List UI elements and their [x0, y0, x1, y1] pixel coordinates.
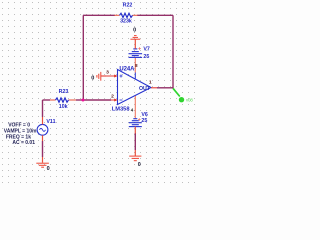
svg-text:0: 0: [47, 166, 50, 172]
svg-text:1: 1: [149, 80, 152, 86]
svg-text:R22: R22: [123, 3, 133, 9]
svg-text:0: 0: [91, 75, 94, 81]
svg-text:LM358: LM358: [112, 107, 130, 113]
svg-text:v08: v08: [186, 97, 193, 102]
svg-text:VAMPL = 10m: VAMPL = 10m: [4, 129, 37, 135]
svg-text:0: 0: [138, 162, 141, 168]
svg-text:V11: V11: [46, 119, 55, 125]
svg-text:3: 3: [106, 69, 109, 75]
svg-text:25: 25: [143, 54, 149, 60]
svg-text:0: 0: [133, 27, 136, 33]
svg-text:25: 25: [141, 118, 147, 124]
svg-text:323k: 323k: [120, 19, 132, 25]
svg-text:OUT: OUT: [139, 86, 151, 92]
svg-text:R23: R23: [59, 89, 69, 95]
svg-text:VOFF = 0: VOFF = 0: [8, 123, 30, 129]
svg-text:U24A: U24A: [119, 66, 135, 72]
svg-text:AC = 0.01: AC = 0.01: [12, 140, 35, 146]
svg-text:2: 2: [111, 93, 114, 99]
svg-text:10k: 10k: [59, 104, 68, 110]
svg-text:V7: V7: [143, 47, 150, 53]
